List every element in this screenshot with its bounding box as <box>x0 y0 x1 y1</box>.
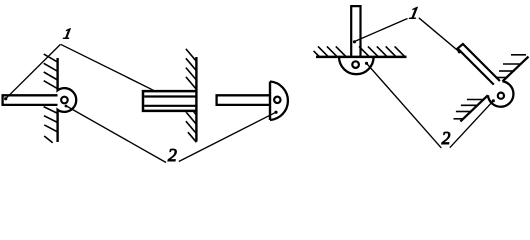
white fill of slider sleeve over wall hatching <box>142 90 195 112</box>
vertical link bar <box>351 6 360 58</box>
white fill of link 1 bar and eye over wall <box>3 96 66 103</box>
hatching lower part of left wall <box>44 107 58 143</box>
hatching lower part of middle wall <box>186 103 197 143</box>
ground line (horizontal support) <box>316 56 407 59</box>
inclined ground line (upper segment) <box>503 57 529 82</box>
hatching left of bar <box>314 46 347 57</box>
pin hole of inclined pivot <box>498 93 504 99</box>
svg-text:2: 2 <box>168 145 177 165</box>
wall (fixed support, left assembly) <box>56 58 58 142</box>
pin hole of hanging pivot <box>352 61 359 68</box>
hatching upper part of left wall <box>44 54 58 89</box>
link 2 bar with eye (free link) <box>217 95 270 105</box>
leader from 2 to hanging pivot <box>367 63 442 148</box>
leader from 1 to vertical bar <box>355 19 408 42</box>
pivot eye arc on inclined ground <box>488 81 514 106</box>
link 1 bar (horizontal, pivoted on wall) <box>3 95 58 105</box>
slider sleeve outer (prismatic pair) <box>143 91 196 111</box>
leader from 1 to link bar <box>6 45 61 99</box>
eye flat of free link <box>269 82 271 121</box>
eye semicircle of free link <box>270 82 288 121</box>
inclined link bar <box>458 44 500 85</box>
leader from 2 to free link eye <box>179 112 276 161</box>
inclined ground line (lower segment) <box>460 95 488 121</box>
hatching right of bar <box>359 46 405 57</box>
hatching above inclined ground <box>497 55 526 78</box>
leader from 1 to inclined link <box>419 18 460 52</box>
wall (fixed support, middle assembly) <box>195 57 197 142</box>
hatching upper part of middle wall <box>186 49 197 89</box>
pin hole of left pivot <box>61 97 68 104</box>
leader from 2 to inclined pivot <box>450 101 494 148</box>
pivot semicircle below ground <box>339 57 374 74</box>
svg-text:2: 2 <box>442 128 451 148</box>
eye arc of link 1 around pin <box>58 88 77 112</box>
leader from 2 to left pivot <box>66 106 167 163</box>
leader from 1 to slider <box>61 44 157 92</box>
hatching below inclined ground <box>454 100 484 119</box>
slider guide bar inner lines <box>144 95 196 97</box>
pin hole of free link eye <box>274 97 280 103</box>
